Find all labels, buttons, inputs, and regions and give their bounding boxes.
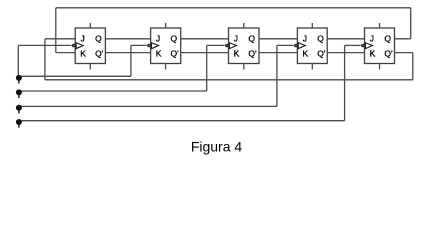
wire: CLK2 horizontal into bubble: [131, 44, 147, 46]
wire: Q'4 to K5: [327, 52, 364, 54]
wire: Q1 to J2: [105, 38, 150, 40]
FF1 clear stub (bottom): [89, 64, 91, 70]
wire: clock line A (terminal 1 to CLK2): [18, 75, 131, 77]
FF4 clear stub (bottom): [311, 64, 313, 70]
svg-text:Figura 4: Figura 4: [191, 139, 243, 155]
svg-text:J: J: [303, 34, 307, 44]
FF4 clock bubble: [294, 44, 298, 48]
wire: J1 feedback vertical (x=45.2): [44, 39, 46, 80]
wire: Q4 to J5: [327, 38, 364, 40]
FF1 preset stub (top): [89, 23, 91, 28]
wire: CLK2 vertical (x=130.9): [130, 45, 132, 76]
FF4 body: [297, 28, 327, 64]
svg-text:Q: Q: [248, 34, 255, 44]
wire: Q3 to J4: [259, 38, 297, 40]
FF2 preset stub (top): [165, 23, 167, 28]
JK flip-flop FF2: [147, 23, 181, 69]
svg-text:Q: Q: [171, 34, 178, 44]
svg-text:Q: Q: [95, 34, 102, 44]
svg-text:K: K: [156, 49, 162, 59]
wire: CLK5 horizontal into bubble: [345, 44, 361, 46]
terminal dot 3: [16, 105, 22, 114]
wire: CLK4 vertical (x=276.9): [276, 45, 278, 106]
wire: top feedback vertical right (x=410.7): [410, 8, 412, 39]
FF5 preset stub (top): [379, 23, 381, 28]
JK flip-flop FF3: [225, 23, 259, 69]
FF3 clock edge wedge: [229, 43, 236, 49]
FF1 body: [75, 28, 105, 64]
wire: CLK4 horizontal into bubble: [277, 44, 294, 46]
svg-text:K: K: [370, 49, 376, 59]
wire: Q5 output stub: [395, 38, 411, 40]
svg-text:J: J: [81, 34, 85, 44]
svg-text:Q': Q': [384, 49, 393, 59]
FF5 clock bubble: [361, 44, 365, 48]
wire: CLK3 vertical (x=206.7): [206, 45, 208, 91]
FF2 clear stub (bottom): [165, 64, 167, 70]
wire: Q'3 to K4: [259, 52, 297, 54]
wire: Q'2 to K3: [181, 52, 229, 54]
wire: bus 4 (terminal 4 to CLK5): [19, 120, 345, 122]
FF2 body: [151, 28, 181, 64]
JK flip-flop FF4: [294, 23, 327, 69]
FF1 clock edge wedge: [76, 43, 83, 49]
wire: K1 input from top feedback: [56, 52, 75, 54]
wire: Q'1 to K2: [105, 52, 150, 54]
svg-text:Q': Q': [171, 49, 180, 59]
svg-text:Q: Q: [317, 34, 324, 44]
terminal dot 4: [16, 119, 22, 128]
wire: bus 3 (terminal 3 to CLK4): [19, 105, 277, 107]
FF2 clock bubble: [147, 44, 151, 48]
svg-text:K: K: [80, 49, 86, 59]
svg-text:K: K: [234, 49, 240, 59]
FF3 clear stub (bottom): [243, 64, 245, 70]
wire: J1 input horizontal: [45, 38, 75, 40]
svg-text:J: J: [156, 34, 160, 44]
svg-text:Q': Q': [248, 49, 257, 59]
wire: bus 2 (terminal 2 to CLK3): [19, 90, 207, 92]
wire: top feedback vertical left (x=55.8): [55, 8, 57, 53]
wire: Q'5 output stub: [395, 52, 413, 54]
svg-text:J: J: [370, 34, 374, 44]
terminal dot 1 (clock input A): [16, 75, 22, 84]
JK flip-flop FF5: [361, 23, 395, 69]
FF2 clock edge wedge: [152, 43, 159, 49]
wire: CLK1 input horizontal: [18, 44, 71, 46]
svg-text:Q: Q: [384, 34, 391, 44]
svg-text:Q': Q': [95, 49, 104, 59]
FF5 clock edge wedge: [365, 43, 372, 49]
svg-text:J: J: [234, 34, 238, 44]
terminal dot 2: [16, 89, 22, 98]
wire: CLK5 vertical (x=344.2): [344, 45, 346, 120]
svg-text:Q': Q': [317, 49, 326, 59]
svg-text:K: K: [303, 49, 309, 59]
wire: bottom feedback bus (Q'5 to J1): [45, 79, 413, 81]
FF5 body: [365, 28, 395, 64]
wire: bottom feedback vertical right (x=412.8): [412, 53, 414, 80]
wire: CLK1 vertical to terminal 1: [17, 45, 19, 76]
wire: Q2 to J3: [181, 38, 229, 40]
FF5 clear stub (bottom): [379, 64, 381, 70]
FF4 preset stub (top): [311, 23, 313, 28]
JK flip-flop FF1: [72, 23, 106, 69]
FF3 preset stub (top): [243, 23, 245, 28]
FF4 clock edge wedge: [298, 43, 305, 49]
FF3 body: [229, 28, 260, 64]
FF1 clock bubble: [72, 44, 76, 48]
wire: CLK3 horizontal into bubble: [207, 44, 225, 46]
FF3 clock bubble: [225, 44, 229, 48]
wire: top feedback horizontal (Q5 to K1): [56, 7, 411, 9]
